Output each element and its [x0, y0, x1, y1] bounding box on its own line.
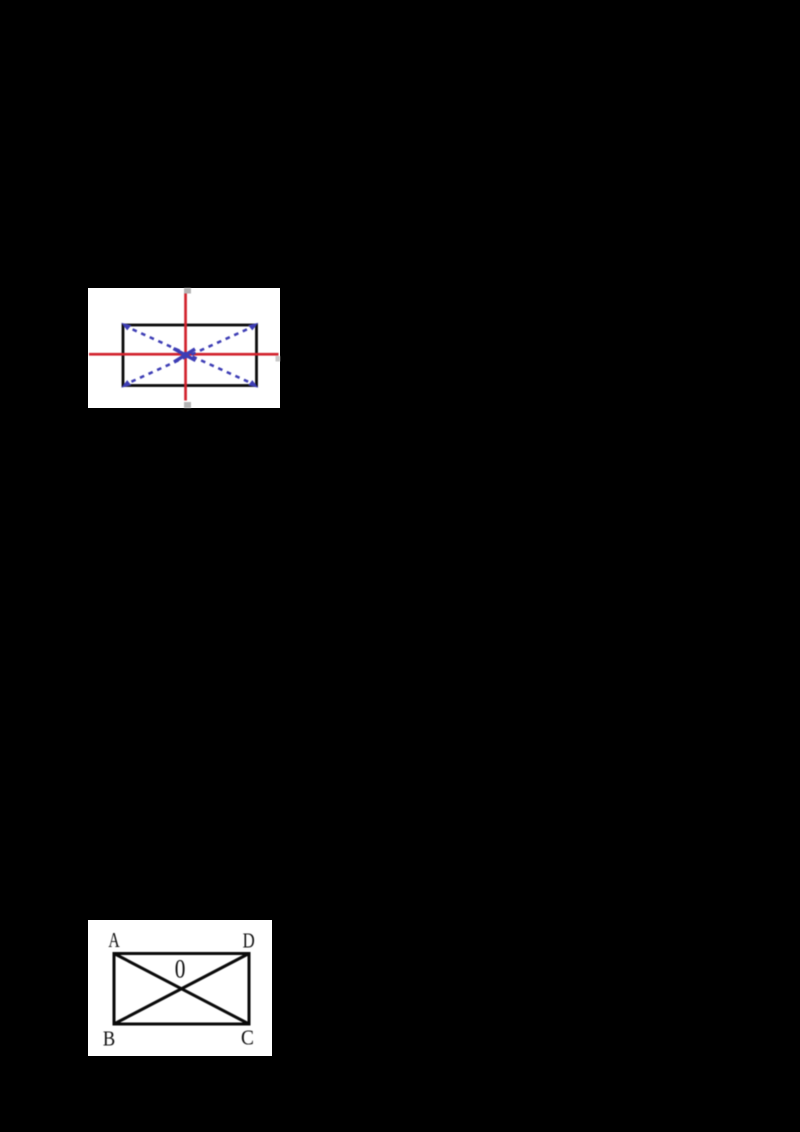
svg-text:0: 0: [175, 956, 186, 984]
svg-text:C: C: [241, 1027, 254, 1050]
svg-text:B: B: [103, 1027, 115, 1051]
svg-text:D: D: [243, 930, 255, 953]
svg-text:A: A: [108, 929, 120, 953]
